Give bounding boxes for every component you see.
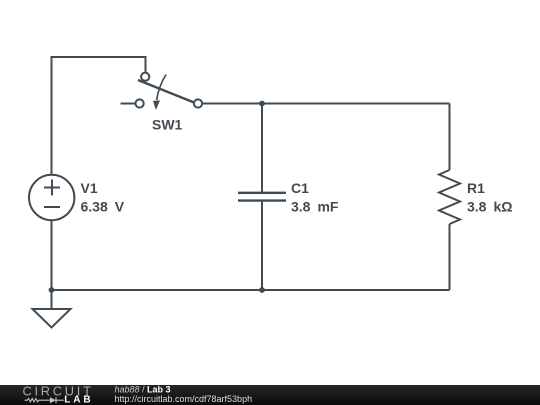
wire: V1 bottom lead xyxy=(51,221,53,291)
wire: capacitor bottom lead xyxy=(261,201,263,291)
voltage source V1 xyxy=(29,175,74,220)
footer bar xyxy=(0,385,540,405)
wire: resistor bottom lead xyxy=(449,224,451,290)
wire: switch output to resistor top (top rail) xyxy=(202,103,449,105)
ground xyxy=(33,309,71,328)
wire: capacitor top lead xyxy=(261,104,263,193)
wire: ground lead xyxy=(51,290,53,309)
node: junction ground xyxy=(49,287,55,293)
svg-text:http://circuitlab.com/cdf78arf: http://circuitlab.com/cdf78arf53bph xyxy=(115,394,253,404)
svg-text:LAB: LAB xyxy=(64,395,93,405)
node: junction top (cap/top rail) xyxy=(259,101,265,107)
logo resistor-diode squiggle xyxy=(25,397,64,403)
wire: bottom rail xyxy=(52,289,450,291)
node: junction bottom (cap/bottom rail) xyxy=(259,287,265,293)
svg-text:hab88 / Lab 3: hab88 / Lab 3 xyxy=(115,385,171,395)
capacitor C1 xyxy=(238,193,286,201)
resistor R1 xyxy=(439,170,460,224)
wire: V1 top to switch (top-left rail) xyxy=(52,57,146,175)
wire: resistor top lead xyxy=(449,104,451,171)
switch SW1 xyxy=(121,73,203,110)
